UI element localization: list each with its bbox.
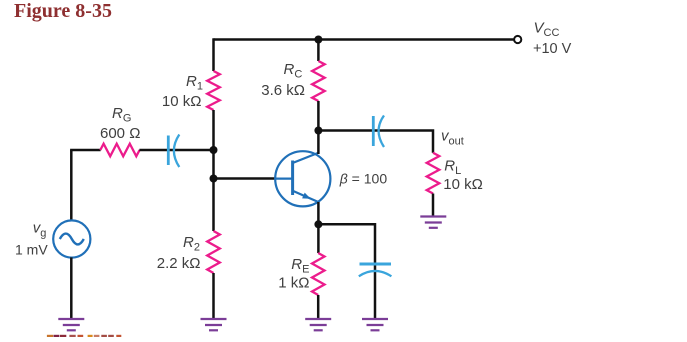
wire R1 top	[212, 38, 215, 71]
svg-text:β = 100: β = 100	[339, 170, 388, 186]
ground G4	[362, 319, 388, 330]
wire base	[214, 177, 277, 180]
wire collector top	[317, 40, 320, 62]
svg-text:vg: vg	[33, 219, 47, 239]
svg-text:600 Ω: 600 Ω	[100, 125, 140, 142]
resistor RL	[427, 153, 440, 194]
wire R1 bottom to R2	[212, 110, 215, 231]
capacitor C3 bypass	[359, 264, 392, 276]
svg-text:2.2 kΩ: 2.2 kΩ	[157, 255, 201, 272]
svg-text:VCC: VCC	[534, 20, 560, 40]
wire R2 bottom	[212, 273, 215, 319]
svg-text:10 kΩ: 10 kΩ	[162, 93, 202, 110]
wire RE bottom	[317, 295, 320, 319]
svg-text:10 kΩ: 10 kΩ	[443, 176, 483, 193]
ground G2	[201, 319, 227, 330]
ground G3	[305, 319, 331, 330]
capacitor C2	[373, 116, 384, 148]
source vg	[53, 220, 90, 257]
svg-text:Figure 8-35: Figure 8-35	[14, 0, 112, 22]
svg-text:RE: RE	[291, 256, 309, 276]
wire RG to node	[139, 149, 213, 152]
ground G5	[420, 217, 446, 228]
svg-text:RL: RL	[444, 158, 461, 178]
node collector rail junction	[314, 36, 322, 44]
svg-text:vout: vout	[441, 128, 464, 148]
capacitor C1	[168, 135, 179, 168]
wire source top	[70, 150, 73, 221]
node emitter junction	[314, 220, 322, 228]
svg-text:1 mV: 1 mV	[15, 241, 48, 257]
svg-text:RG: RG	[112, 105, 131, 125]
cropped caption fragment	[47, 335, 121, 337]
svg-text:3.6 kΩ: 3.6 kΩ	[261, 82, 305, 99]
wire output	[318, 131, 433, 153]
svg-text:R2: R2	[183, 234, 200, 254]
wire top rail	[214, 38, 514, 41]
node base junction	[210, 175, 218, 183]
svg-text:1 kΩ: 1 kΩ	[278, 275, 309, 292]
transistor Q1	[275, 151, 330, 206]
resistor RE	[312, 253, 325, 295]
wire source to RG	[70, 149, 101, 152]
resistor R2	[207, 231, 220, 273]
svg-text:+10 V: +10 V	[533, 41, 572, 57]
wire RL bottom	[432, 194, 435, 217]
wire emitter	[317, 202, 320, 253]
node collector output junction	[314, 127, 322, 135]
resistor R1	[207, 71, 220, 110]
resistor RC	[312, 61, 325, 101]
wire emitter to bypass capacitor	[318, 224, 375, 318]
ground G1	[58, 319, 84, 330]
svg-text:RC: RC	[284, 61, 303, 81]
wire RC bottom	[317, 101, 320, 154]
wire source bottom	[70, 257, 73, 318]
resistor RG	[100, 144, 139, 157]
node input junction	[210, 146, 218, 154]
svg-text:R1: R1	[186, 73, 203, 93]
terminal VCC	[514, 36, 521, 43]
